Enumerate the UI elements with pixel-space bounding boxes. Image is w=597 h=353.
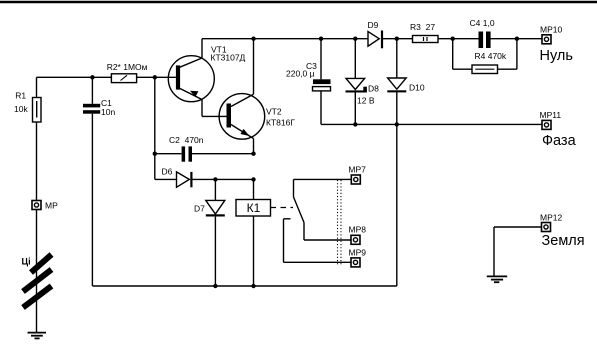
svg-text:MP11: MP11 — [540, 110, 562, 120]
svg-text:12 В: 12 В — [357, 96, 375, 106]
svg-text:D7: D7 — [194, 204, 205, 214]
svg-text:Ці: Ці — [22, 257, 31, 267]
svg-text:R3 27: R3 27 — [410, 22, 435, 32]
svg-text:VT2: VT2 — [266, 106, 282, 116]
svg-text:R2* 1МОм: R2* 1МОм — [107, 62, 148, 72]
svg-text:MP12: MP12 — [540, 213, 562, 223]
svg-text:КТ816Г: КТ816Г — [266, 118, 295, 128]
svg-text:D8: D8 — [368, 83, 379, 93]
svg-text:D6: D6 — [162, 167, 173, 177]
svg-text:MP9: MP9 — [349, 248, 367, 258]
svg-text:R1: R1 — [15, 90, 26, 100]
svg-text:D10: D10 — [409, 83, 425, 93]
svg-text:10n: 10n — [101, 107, 115, 117]
svg-text:MP7: MP7 — [348, 164, 366, 174]
svg-text:10k: 10k — [14, 104, 28, 114]
svg-text:К1: К1 — [247, 201, 261, 215]
svg-text:C2 470n: C2 470n — [169, 135, 204, 145]
svg-text:C4 1,0: C4 1,0 — [470, 18, 495, 28]
svg-text:Нуль: Нуль — [540, 48, 573, 64]
svg-text:R4 470k: R4 470k — [475, 51, 507, 61]
svg-text:MP8: MP8 — [349, 225, 367, 235]
svg-text:Фаза: Фаза — [542, 133, 577, 149]
svg-text:MP: MP — [45, 201, 58, 211]
svg-text:MP10: MP10 — [540, 25, 562, 35]
svg-text:220,0 µ: 220,0 µ — [286, 69, 315, 79]
svg-text:D9: D9 — [368, 20, 379, 30]
svg-text:КТ3107Д: КТ3107Д — [211, 53, 246, 63]
svg-text:Земля: Земля — [542, 233, 585, 249]
